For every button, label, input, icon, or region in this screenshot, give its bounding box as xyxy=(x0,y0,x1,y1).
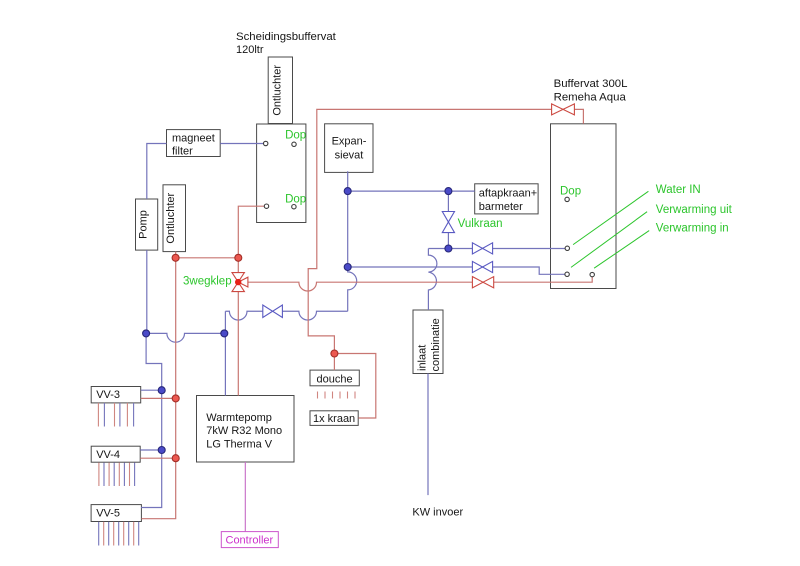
wire blue riser to inlaatcombinatie with two hops xyxy=(428,249,436,311)
controller wire xyxy=(244,462,246,532)
box ontluchter (left) xyxy=(163,185,186,252)
wire blue riser to warmtepomp xyxy=(224,311,226,395)
terminal circles scheidingsbuffervat xyxy=(264,141,268,145)
box inlaat combinatie xyxy=(413,310,443,374)
node ontluchter red xyxy=(172,254,179,261)
valve blue y267 xyxy=(472,261,492,272)
svg-text:Dop: Dop xyxy=(285,194,306,206)
svg-text:Water IN: Water IN xyxy=(656,184,701,196)
box VV-4 xyxy=(91,446,140,462)
douche spray dashes xyxy=(318,392,356,399)
vessel buffervat 300L xyxy=(551,124,617,289)
wire red ontluchter to VV-5 xyxy=(141,252,175,519)
svg-text:Ontluchter: Ontluchter xyxy=(271,65,283,116)
radiator fins VV-4 xyxy=(99,463,135,486)
wire blue stub VV-3 xyxy=(141,389,162,391)
wire red branch to 1x kraan xyxy=(334,354,375,419)
svg-text:VV-4: VV-4 xyxy=(96,449,120,461)
svg-text:Warmtepomp: Warmtepomp xyxy=(206,412,272,424)
svg-text:Verwarming in: Verwarming in xyxy=(656,222,729,234)
svg-text:KW invoer: KW invoer xyxy=(412,507,463,519)
svg-text:Ontluchter: Ontluchter xyxy=(165,192,177,243)
svg-text:combinatie: combinatie xyxy=(430,318,442,371)
wire blue stub VV-4 xyxy=(140,449,162,451)
svg-text:VV-3: VV-3 xyxy=(96,389,120,401)
radiator fins VV-3 xyxy=(98,403,133,427)
svg-text:Dop: Dop xyxy=(285,130,306,142)
valve vulkraan (vertical) xyxy=(442,212,454,233)
svg-text:Buffervat 300L: Buffervat 300L xyxy=(554,78,628,90)
svg-text:barmeter: barmeter xyxy=(479,201,523,213)
wire blue magneetfilter to pomp xyxy=(147,144,167,200)
node 3wegklep red xyxy=(235,254,242,261)
svg-text:1x kraan: 1x kraan xyxy=(313,413,355,425)
wire red y257 xyxy=(176,257,239,259)
svg-text:Vulkraan: Vulkraan xyxy=(458,218,503,230)
wire red y282 with hop, to buffervat xyxy=(248,277,592,291)
valve blue y248 xyxy=(472,243,492,254)
svg-text:Dop: Dop xyxy=(560,186,581,198)
node vulkraan top xyxy=(445,188,452,195)
svg-text:sievat: sievat xyxy=(335,149,364,161)
terminal circles buffervat xyxy=(565,197,569,201)
box douche xyxy=(310,370,359,386)
wire blue horizontal y311 with hops xyxy=(225,311,347,320)
box VV-3 xyxy=(91,387,141,403)
node VV-3 blue xyxy=(158,387,165,394)
svg-text:Verwarming uit: Verwarming uit xyxy=(656,204,733,216)
radiator fins VV-5 xyxy=(99,522,139,546)
svg-text:LG Therma V: LG Therma V xyxy=(206,439,272,451)
green pointer Verwarming in xyxy=(594,231,649,269)
svg-text:filter: filter xyxy=(172,146,193,158)
node pomp return xyxy=(143,330,150,337)
box 1x kraan xyxy=(310,411,358,426)
valve red top (buffervat feed) xyxy=(552,104,575,115)
box aftapkraan+barmeter xyxy=(475,184,538,214)
svg-text:Scheidingsbuffervat: Scheidingsbuffervat xyxy=(236,31,337,43)
valve blue y311 xyxy=(263,305,283,318)
svg-text:Remeha Aqua: Remeha Aqua xyxy=(554,91,627,103)
valve 3wegklep xyxy=(232,273,248,292)
green pointer Verwarming uit xyxy=(571,212,647,268)
node douche red xyxy=(331,350,338,357)
wire blue y267 to buffervat xyxy=(348,267,565,274)
node vulkraan bottom xyxy=(445,245,452,252)
node VV-3 red xyxy=(172,395,179,402)
box controller xyxy=(221,532,278,548)
vessel scheidingsbuffervat xyxy=(257,124,306,223)
box ontluchter (top) xyxy=(268,57,292,124)
wire blue inlaat to KW invoer xyxy=(427,374,429,496)
wire blue VV return drop xyxy=(141,333,162,507)
svg-text:3wegklep: 3wegklep xyxy=(183,276,232,288)
wire blue horizontal y333 with hop over red riser xyxy=(146,333,224,342)
svg-text:7kW R32 Mono: 7kW R32 Mono xyxy=(206,425,282,437)
node y267 xyxy=(344,264,351,271)
node VV-4 red xyxy=(172,455,179,462)
node warmtepomp return xyxy=(221,330,228,337)
box VV-5 xyxy=(91,505,141,522)
green pointer Water IN xyxy=(573,191,648,244)
svg-text:aftapkraan+: aftapkraan+ xyxy=(479,188,537,200)
node VV-4 blue xyxy=(158,447,165,454)
svg-text:Pomp: Pomp xyxy=(138,210,150,239)
wire red stub VV-4 xyxy=(140,457,176,459)
valve red y282 xyxy=(472,277,493,288)
wire blue vulkraan riser xyxy=(447,191,449,248)
svg-text:douche: douche xyxy=(317,373,353,385)
wire red top line buffervat to douche riser xyxy=(308,109,583,370)
svg-text:Expan-: Expan- xyxy=(332,136,367,148)
wire blue magneetfilter to vessel xyxy=(220,143,263,145)
svg-text:inlaat: inlaat xyxy=(417,345,429,371)
wire red stub VV-3 xyxy=(141,397,176,399)
wire blue y248 to buffervat xyxy=(428,248,565,250)
wire blue riser expansievat with hop over red xyxy=(348,171,357,311)
box expansievat xyxy=(325,124,373,173)
wire red vessel to 3wegklep to warmtepomp xyxy=(238,206,264,395)
svg-text:120ltr: 120ltr xyxy=(236,44,264,56)
wire blue pomp down to node xyxy=(146,250,148,333)
box magneetfilter xyxy=(167,130,221,157)
box pomp xyxy=(136,199,158,250)
svg-text:magneet: magneet xyxy=(172,132,215,144)
box warmtepomp xyxy=(197,396,295,463)
node expansievat y191 xyxy=(344,188,351,195)
svg-text:VV-5: VV-5 xyxy=(96,508,120,520)
svg-text:Controller: Controller xyxy=(226,535,274,547)
wire blue y191 expansievat to aftapkraan xyxy=(348,190,475,192)
